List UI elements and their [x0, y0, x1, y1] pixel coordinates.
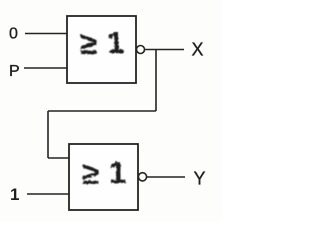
- feedback wire vertical left: [47, 111, 49, 158]
- feedback wire vertical from output node: [155, 50, 157, 112]
- svg-text:1: 1: [107, 25, 124, 60]
- OR gate U1 (IEC box): [67, 16, 136, 83]
- inverter bubble on U2 output: [138, 173, 146, 181]
- inverter bubble on U1 output: [137, 46, 145, 54]
- wire input 0: [25, 33, 67, 35]
- svg-text:≥: ≥: [82, 156, 99, 191]
- feedback wire horizontal upper: [48, 110, 156, 112]
- svg-text:1: 1: [10, 185, 19, 204]
- wire input P: [24, 67, 67, 69]
- feedback wire into U2 input: [48, 157, 69, 159]
- svg-text:X: X: [192, 39, 204, 59]
- wire input 1: [27, 193, 69, 195]
- gate U1 function label >=1: [80, 25, 124, 61]
- wire U1 output to X: [145, 49, 185, 51]
- svg-text:≥: ≥: [80, 26, 97, 61]
- gate U2 function label >=1: [82, 155, 126, 191]
- wire U2 output to Y: [147, 176, 186, 178]
- OR gate U2 (IEC box): [69, 144, 138, 210]
- svg-text:Y: Y: [194, 169, 206, 189]
- svg-text:0: 0: [9, 26, 18, 43]
- svg-text:1: 1: [109, 155, 126, 190]
- svg-text:P: P: [9, 63, 20, 80]
